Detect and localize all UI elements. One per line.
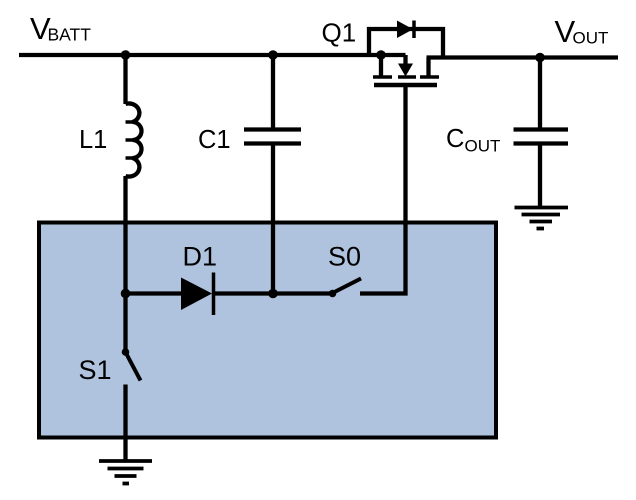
svg-text:Q1: Q1	[322, 18, 357, 48]
svg-text:C1: C1	[198, 126, 231, 154]
svg-text:OUT: OUT	[573, 29, 609, 48]
svg-text:D1: D1	[183, 242, 218, 272]
svg-text:OUT: OUT	[465, 137, 501, 156]
svg-text:S1: S1	[79, 355, 112, 385]
svg-text:C: C	[446, 125, 464, 153]
svg-text:BATT: BATT	[48, 25, 92, 45]
svg-text:L1: L1	[79, 126, 107, 154]
svg-text:S0: S0	[328, 242, 361, 272]
